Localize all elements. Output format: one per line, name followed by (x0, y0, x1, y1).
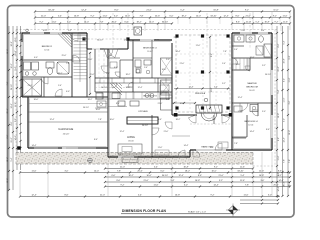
svg-text:BEDROOM #3: BEDROOM #3 (143, 96, 157, 98)
svg-text:25'-6": 25'-6" (90, 74, 95, 76)
svg-text:12'-4": 12'-4" (178, 175, 183, 177)
svg-text:12'-4": 12'-4" (138, 87, 143, 89)
svg-text:21'-0": 21'-0" (278, 66, 280, 71)
svg-text:21'-0": 21'-0" (246, 21, 251, 23)
svg-text:21'-0": 21'-0" (143, 180, 148, 182)
svg-text:16'-8": 16'-8" (259, 175, 264, 177)
svg-text:21'-0": 21'-0" (120, 167, 125, 169)
svg-text:5'-4": 5'-4" (11, 157, 13, 161)
svg-text:14'-4": 14'-4" (94, 171, 99, 173)
svg-text:9'-2": 9'-2" (40, 21, 44, 23)
svg-text:5'-4": 5'-4" (58, 85, 62, 87)
svg-text:7'-8": 7'-8" (289, 159, 291, 163)
svg-text:BEDROOM #2: BEDROOM #2 (143, 48, 157, 50)
svg-text:9'-2": 9'-2" (289, 55, 291, 59)
svg-text:5'-4": 5'-4" (261, 30, 265, 32)
svg-text:6'-0": 6'-0" (170, 15, 174, 17)
svg-text:11'-6": 11'-6" (238, 111, 243, 113)
svg-text:11'-6": 11'-6" (196, 45, 201, 47)
svg-text:7'-8": 7'-8" (66, 63, 70, 65)
svg-text:11'-6": 11'-6" (278, 155, 280, 160)
svg-text:21'-0": 21'-0" (11, 137, 13, 142)
svg-text:5'-4": 5'-4" (234, 49, 238, 51)
svg-text:3'-0": 3'-0" (284, 118, 286, 122)
svg-text:11'-6": 11'-6" (158, 147, 163, 149)
svg-text:34'-10": 34'-10" (11, 84, 13, 90)
svg-text:16'-8": 16'-8" (180, 103, 185, 105)
svg-text:8'-6": 8'-6" (158, 119, 162, 121)
svg-text:5'-4": 5'-4" (256, 21, 260, 23)
svg-text:8'-6": 8'-6" (198, 175, 202, 177)
svg-text:14'x15': 14'x15' (249, 90, 255, 92)
svg-text:21'-0": 21'-0" (180, 63, 185, 65)
svg-text:12'-4": 12'-4" (50, 119, 55, 121)
svg-text:8'-6": 8'-6" (11, 121, 13, 125)
svg-text:16'-8": 16'-8" (74, 15, 79, 17)
svg-text:9'-2": 9'-2" (275, 21, 279, 23)
svg-text:16'-8": 16'-8" (96, 109, 101, 111)
svg-text:21'-0": 21'-0" (41, 15, 46, 17)
svg-text:18'-2": 18'-2" (176, 119, 181, 121)
svg-text:16'-8": 16'-8" (43, 30, 48, 32)
svg-text:14'-4": 14'-4" (289, 130, 291, 135)
svg-text:11'-6": 11'-6" (154, 185, 159, 187)
svg-text:9'-2": 9'-2" (106, 73, 110, 75)
svg-text:14'-4": 14'-4" (184, 145, 189, 147)
svg-text:8'-6": 8'-6" (211, 53, 213, 57)
svg-text:34'-10": 34'-10" (237, 171, 243, 173)
svg-text:3'-0": 3'-0" (184, 185, 188, 187)
svg-text:5'-4": 5'-4" (222, 63, 226, 65)
svg-text:21'-0": 21'-0" (241, 30, 246, 32)
svg-text:10'-0": 10'-0" (196, 15, 201, 17)
svg-text:6'-0": 6'-0" (166, 99, 170, 101)
svg-text:7'-8": 7'-8" (245, 185, 249, 187)
svg-text:34'-10": 34'-10" (265, 74, 271, 76)
svg-text:12'-4": 12'-4" (11, 103, 13, 108)
svg-text:25'-6": 25'-6" (88, 59, 93, 61)
svg-text:5'-4": 5'-4" (180, 9, 184, 11)
svg-text:GARAGE: GARAGE (58, 127, 73, 131)
svg-text:6'-0": 6'-0" (7, 134, 9, 138)
svg-text:6'-0": 6'-0" (112, 175, 116, 177)
svg-text:3'-0": 3'-0" (262, 111, 266, 113)
svg-text:11'-6": 11'-6" (32, 171, 37, 173)
svg-text:16'-8": 16'-8" (213, 9, 219, 11)
svg-text:25'-6": 25'-6" (62, 55, 67, 57)
svg-text:10'-0": 10'-0" (149, 21, 154, 23)
svg-text:6'-0": 6'-0" (161, 171, 165, 173)
svg-text:9'-2": 9'-2" (278, 175, 282, 177)
svg-text:8'-6": 8'-6" (236, 15, 240, 17)
svg-text:DIMENSION FLOOR PLAN: DIMENSION FLOOR PLAN (122, 209, 166, 213)
svg-text:SCALE: 1/4" = 1'-0": SCALE: 1/4" = 1'-0" (188, 211, 206, 214)
svg-text:11'-6": 11'-6" (289, 77, 291, 82)
svg-text:10'-0": 10'-0" (34, 99, 39, 101)
svg-text:16'-8": 16'-8" (278, 113, 280, 118)
svg-text:34'-10": 34'-10" (101, 87, 107, 89)
svg-text:21'-0": 21'-0" (100, 195, 105, 197)
svg-text:21'-0": 21'-0" (245, 15, 250, 17)
svg-text:14'-4": 14'-4" (250, 131, 255, 133)
svg-text:18'-2": 18'-2" (181, 15, 186, 17)
svg-text:14'-4": 14'-4" (284, 137, 286, 142)
svg-text:10'-0": 10'-0" (236, 64, 241, 66)
svg-text:3'-0": 3'-0" (289, 100, 291, 104)
svg-text:10'-0": 10'-0" (162, 69, 167, 71)
svg-text:5'-4": 5'-4" (284, 40, 286, 44)
svg-text:12'-4": 12'-4" (120, 131, 125, 133)
svg-text:12'-4": 12'-4" (81, 9, 87, 11)
svg-text:12'-4": 12'-4" (31, 195, 36, 197)
svg-text:LIVING: LIVING (127, 137, 135, 139)
svg-text:3'-0": 3'-0" (212, 119, 216, 121)
svg-text:5'-4": 5'-4" (171, 180, 175, 182)
svg-text:10'-0": 10'-0" (11, 63, 13, 68)
svg-text:PERGOLA: PERGOLA (195, 92, 206, 95)
svg-text:14'-4": 14'-4" (278, 186, 280, 191)
svg-text:KITCHEN: KITCHEN (138, 111, 148, 113)
svg-text:8'-6": 8'-6" (94, 139, 98, 141)
svg-text:16'-8": 16'-8" (250, 57, 255, 59)
svg-text:18'-2": 18'-2" (136, 21, 141, 23)
svg-text:16'-8": 16'-8" (264, 21, 269, 23)
svg-text:BEDROOM #4: BEDROOM #4 (244, 121, 258, 123)
svg-text:6'-0": 6'-0" (34, 57, 38, 59)
svg-text:8'-6": 8'-6" (114, 9, 118, 11)
svg-text:8'-6": 8'-6" (155, 40, 159, 42)
svg-text:18'-2": 18'-2" (126, 74, 131, 76)
svg-text:14'-4": 14'-4" (213, 185, 218, 187)
svg-text:21'-0": 21'-0" (28, 85, 33, 87)
svg-text:11'-6": 11'-6" (15, 102, 17, 107)
svg-text:5'-4": 5'-4" (278, 89, 280, 93)
svg-text:11'-6": 11'-6" (108, 55, 113, 57)
svg-text:12'-4": 12'-4" (124, 40, 129, 42)
svg-text:9'-2": 9'-2" (284, 78, 286, 82)
svg-text:11'-6": 11'-6" (52, 21, 57, 23)
svg-text:5'-4": 5'-4" (154, 167, 158, 169)
svg-text:7'-8": 7'-8" (117, 171, 121, 173)
svg-text:5'-4": 5'-4" (138, 195, 142, 197)
svg-text:7'-8": 7'-8" (234, 143, 238, 145)
svg-text:18'-2": 18'-2" (88, 99, 93, 101)
svg-text:34'-10": 34'-10" (162, 175, 168, 177)
svg-text:6'-0": 6'-0" (66, 91, 70, 93)
svg-text:11'-6": 11'-6" (283, 21, 288, 23)
svg-text:6'-0": 6'-0" (114, 67, 118, 69)
svg-text:34'-10": 34'-10" (83, 107, 89, 109)
svg-text:25'-6": 25'-6" (111, 21, 116, 23)
svg-text:9'-2": 9'-2" (219, 180, 223, 182)
svg-text:5'-4": 5'-4" (144, 67, 148, 69)
svg-text:7'-8": 7'-8" (284, 159, 286, 163)
svg-text:25'-6": 25'-6" (155, 15, 160, 17)
svg-text:9'-2": 9'-2" (211, 195, 215, 197)
svg-text:5'-4": 5'-4" (15, 66, 17, 70)
svg-text:18'-2": 18'-2" (7, 157, 9, 162)
svg-text:8'-6": 8'-6" (236, 21, 240, 23)
svg-text:3'-0": 3'-0" (15, 118, 17, 122)
svg-text:25'-6": 25'-6" (273, 185, 278, 187)
svg-text:11'-6": 11'-6" (240, 180, 245, 182)
svg-text:9'-2": 9'-2" (278, 137, 280, 141)
svg-text:3'-0": 3'-0" (261, 180, 265, 182)
svg-text:8'-6": 8'-6" (116, 103, 120, 105)
svg-text:6'-0": 6'-0" (125, 21, 129, 23)
svg-text:18'-2": 18'-2" (185, 171, 190, 173)
svg-text:25'-6": 25'-6" (7, 108, 9, 113)
svg-text:21'-0": 21'-0" (158, 103, 163, 105)
svg-text:9'-2": 9'-2" (91, 15, 95, 17)
svg-text:8'-6": 8'-6" (266, 129, 270, 131)
svg-text:7'-8": 7'-8" (223, 51, 227, 53)
svg-text:5'-4": 5'-4" (214, 86, 218, 88)
svg-text:18'-2": 18'-2" (11, 41, 13, 46)
svg-text:5'-4": 5'-4" (58, 15, 62, 17)
svg-text:BEDRM #1: BEDRM #1 (42, 46, 53, 48)
svg-text:3'-0": 3'-0" (114, 15, 118, 17)
svg-text:8'-6": 8'-6" (117, 180, 121, 182)
svg-text:11'-6": 11'-6" (283, 15, 288, 17)
svg-text:16'-8": 16'-8" (183, 167, 188, 169)
svg-text:34'-10": 34'-10" (142, 125, 148, 127)
svg-text:14'-4": 14'-4" (7, 49, 9, 54)
svg-text:12'-4": 12'-4" (223, 15, 228, 17)
svg-text:14'-4": 14'-4" (32, 145, 37, 147)
svg-text:14'-4": 14'-4" (15, 135, 17, 140)
svg-text:18'x16': 18'x16' (128, 141, 134, 143)
svg-text:9'-2": 9'-2" (118, 154, 122, 156)
svg-text:12'-4": 12'-4" (259, 171, 264, 173)
svg-text:18'-2": 18'-2" (58, 73, 63, 75)
svg-text:12'x11': 12'x11' (44, 50, 50, 52)
svg-text:12'-4": 12'-4" (189, 86, 194, 88)
svg-text:10'-0": 10'-0" (110, 119, 115, 121)
svg-text:25'-6": 25'-6" (137, 171, 142, 173)
svg-text:MASTER: MASTER (247, 82, 257, 85)
svg-text:16'-8": 16'-8" (126, 87, 131, 89)
svg-text:16'-8": 16'-8" (175, 195, 180, 197)
svg-text:16'-8": 16'-8" (195, 180, 200, 182)
svg-text:9'-2": 9'-2" (245, 9, 249, 11)
svg-text:12'-4": 12'-4" (238, 97, 243, 99)
svg-text:BEDROOM: BEDROOM (246, 87, 257, 89)
svg-text:3'-0": 3'-0" (166, 59, 170, 61)
svg-text:8'-6": 8'-6" (65, 195, 69, 197)
svg-text:11'x12': 11'x12' (147, 51, 153, 53)
svg-text:10'-0": 10'-0" (7, 178, 9, 183)
svg-text:9'-2": 9'-2" (222, 83, 226, 85)
svg-text:9'-2": 9'-2" (214, 167, 218, 169)
svg-text:7'-8": 7'-8" (98, 119, 102, 121)
svg-text:3'-0": 3'-0" (268, 195, 272, 197)
svg-text:21'-0": 21'-0" (164, 131, 169, 133)
svg-text:9'-2": 9'-2" (273, 15, 277, 17)
svg-text:20'x22': 20'x22' (63, 134, 70, 136)
svg-text:7'-8": 7'-8" (140, 15, 144, 17)
svg-text:21'-0": 21'-0" (15, 50, 17, 55)
svg-text:11'-6": 11'-6" (284, 97, 286, 102)
svg-text:14'-4": 14'-4" (176, 51, 181, 53)
svg-text:16'-8": 16'-8" (284, 58, 286, 63)
svg-text:3'-0": 3'-0" (210, 147, 214, 149)
svg-text:34'-10": 34'-10" (210, 15, 216, 17)
svg-text:8'-6": 8'-6" (278, 43, 280, 47)
svg-text:11'-6": 11'-6" (244, 195, 249, 197)
svg-text:34'-10": 34'-10" (97, 40, 103, 42)
svg-text:11'-6": 11'-6" (273, 9, 278, 11)
svg-text:10'-0": 10'-0" (211, 171, 216, 173)
svg-text:9'-2": 9'-2" (262, 65, 266, 67)
svg-text:25'-6": 25'-6" (174, 37, 179, 39)
svg-text:9'-2": 9'-2" (121, 185, 125, 187)
svg-text:14'-4": 14'-4" (84, 21, 89, 23)
svg-text:16'-8": 16'-8" (211, 87, 213, 92)
svg-text:10'-0": 10'-0" (146, 175, 151, 177)
svg-text:11'-6": 11'-6" (103, 15, 108, 17)
svg-text:11'-6": 11'-6" (240, 167, 245, 169)
svg-text:21'-0": 21'-0" (218, 175, 223, 177)
svg-text:14'-4": 14'-4" (125, 15, 130, 17)
svg-text:8'-6": 8'-6" (278, 171, 282, 173)
svg-text:3'-0": 3'-0" (67, 21, 71, 23)
svg-text:21'-0": 21'-0" (146, 9, 152, 11)
svg-text:3'-0": 3'-0" (65, 171, 69, 173)
svg-text:9'-2": 9'-2" (68, 30, 72, 32)
svg-text:18'-2": 18'-2" (128, 175, 133, 177)
svg-text:8'-6": 8'-6" (15, 37, 17, 41)
svg-text:34'-10": 34'-10" (48, 9, 55, 11)
svg-text:7'-8": 7'-8" (7, 81, 9, 85)
svg-text:5'-4": 5'-4" (241, 175, 245, 177)
svg-text:14'-4": 14'-4" (278, 180, 283, 182)
svg-text:12'x11': 12'x11' (248, 125, 254, 127)
